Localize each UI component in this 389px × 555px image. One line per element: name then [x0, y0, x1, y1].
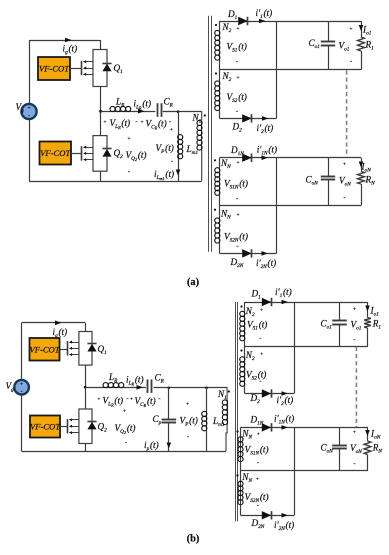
svg-text:-: - — [187, 434, 189, 441]
wire outputN top rail (b) — [294, 427, 368, 429]
secondary winding S3 N_N (b) — [240, 427, 242, 437]
svg-text:+: + — [237, 213, 240, 219]
current arrow i2N' (b) — [282, 513, 289, 518]
current arrow i_g (a) — [65, 38, 72, 43]
transformer primary lead (a) — [201, 111, 203, 120]
secondary winding S4 N_N (a) — [219, 205, 221, 218]
current arrow i1N' (b) — [282, 425, 289, 430]
svg-text:-: - — [257, 460, 259, 467]
svg-text:-: - — [236, 108, 238, 115]
wire outputN top rail (a) — [277, 157, 362, 159]
svg-text:(a): (a) — [187, 277, 200, 288]
wire Q1 source (a) — [100, 87, 102, 112]
svg-text:+: + — [343, 162, 346, 168]
capacitor C_p branch (b) — [168, 387, 171, 390]
svg-text:VF-COT: VF-COT — [39, 64, 70, 74]
dashed continuation line (b) — [355, 347, 357, 427]
svg-text:-: - — [128, 169, 130, 176]
VF-COT controller 2 (a) — [40, 142, 72, 165]
transistor Q1 (a) — [82, 50, 112, 87]
wire bottom rail (b) — [22, 451, 226, 453]
current arrow i1' (b) — [282, 300, 289, 305]
svg-text:+: + — [237, 75, 240, 81]
diode D1 (a) — [220, 21, 277, 23]
wire Q2 source (a) — [100, 171, 102, 181]
current arrow I_oN (b) — [365, 430, 370, 436]
svg-text:-: - — [21, 389, 23, 395]
inductor L_R (b) — [103, 387, 124, 389]
secondary winding S1 N2 (b) — [244, 302, 246, 312]
diode D2 (b) — [245, 393, 295, 395]
node A junction (b) — [84, 386, 87, 389]
svg-text:+: + — [104, 120, 107, 126]
transformer primary winding N1 (a) — [201, 121, 203, 151]
current arrow i_LR (b) — [137, 385, 144, 390]
phase dot S3 (a) — [214, 159, 216, 161]
secondary winding S4 N_N (b) — [240, 471, 242, 482]
source Vg (b) — [14, 380, 29, 395]
VF-COT controller 1 (a) — [38, 57, 70, 80]
svg-text:+: + — [260, 308, 263, 314]
current arrow i2' (b) — [282, 391, 289, 396]
phase dot S1 (b) — [240, 305, 242, 307]
phase dot primary (b) — [228, 390, 230, 392]
phase dot S4 (a) — [214, 209, 216, 211]
secondary winding S3 N_N (a) — [219, 158, 221, 168]
wire output1 top rail (a) — [277, 21, 362, 23]
current arrow i2N' (a) — [262, 251, 269, 256]
capacitor C_oN (b) — [339, 427, 341, 445]
svg-text:-: - — [158, 396, 160, 403]
wire top rail (a) — [29, 40, 101, 42]
resistor R1 (a) — [361, 21, 363, 37]
svg-text:VF-COT: VF-COT — [40, 148, 71, 158]
current arrow i_g (b) — [55, 321, 62, 326]
inductor L_m1 branch wire (a) — [177, 110, 180, 113]
wire Q2 drain (b) — [85, 387, 87, 409]
wire gate Q2 (b) — [60, 426, 68, 428]
current arrow I_o1 (a) — [359, 25, 364, 31]
svg-text:-: - — [353, 337, 355, 344]
current arrow i1' (a) — [259, 19, 266, 24]
diode D2 (a) — [220, 118, 277, 120]
capacitor C_R (b) — [147, 379, 149, 393]
svg-text:+: + — [170, 127, 173, 133]
svg-text:-: - — [126, 396, 128, 403]
svg-text:-: - — [350, 58, 352, 65]
wire output1 bottom rail (b) — [245, 346, 369, 348]
node A junction (a) — [99, 110, 102, 113]
inductor L_m1 branch (b) — [205, 387, 208, 390]
svg-text:+: + — [237, 26, 240, 32]
svg-text:-: - — [236, 243, 238, 250]
transformer core (b) — [235, 302, 237, 521]
svg-text:+: + — [128, 136, 131, 142]
phase dot S1 (a) — [215, 24, 217, 26]
svg-text:-: - — [28, 114, 30, 120]
wire gate Q1 (a) — [70, 68, 82, 70]
wire resonant tank rail (b) — [85, 387, 146, 389]
wire rectifier bus outputN (b) — [294, 427, 296, 515]
inductor L_m1 (b) — [206, 412, 208, 431]
phase dot S2 (a) — [215, 72, 217, 74]
svg-text:+: + — [186, 402, 189, 408]
svg-text:+: + — [353, 430, 356, 436]
resistor R1 (b) — [367, 302, 369, 318]
svg-text:+: + — [256, 476, 259, 482]
VF-COT controller 1 (b) — [30, 338, 60, 361]
phase dot S3 (b) — [236, 430, 238, 432]
wire outputN bottom rail (b) — [241, 470, 369, 472]
transformer primary winding N1 (b) — [227, 400, 229, 425]
capacitor C_oN (a) — [328, 158, 330, 176]
svg-text:-: - — [171, 158, 173, 165]
wire rectifier bus outputN (a) — [276, 158, 278, 254]
wire left rail lower (b) — [21, 395, 23, 451]
wire Q2 drain (a) — [100, 111, 102, 135]
wire rectifier bus output1 (b) — [294, 302, 296, 394]
transistor Q2 (b) — [68, 409, 97, 444]
wire Q1 drain (b) — [85, 323, 87, 332]
transformer core (a) — [208, 16, 210, 252]
VF-COT controller 2 (b) — [30, 416, 60, 438]
current arrow i_p (b) — [167, 443, 172, 449]
svg-text:-: - — [169, 119, 171, 126]
wire resonant tank rail (a) — [101, 111, 156, 113]
svg-text:+: + — [237, 160, 240, 166]
svg-text:-: - — [135, 119, 137, 126]
diode D1N (b) — [241, 427, 295, 429]
svg-text:-: - — [236, 196, 238, 203]
svg-text:-: - — [125, 440, 127, 447]
wire Q1 source (b) — [85, 365, 87, 387]
svg-text:+: + — [353, 307, 356, 313]
svg-text:+: + — [350, 26, 353, 32]
resistor R_N (b) — [367, 427, 369, 441]
dashed continuation line (a) — [346, 70, 348, 157]
secondary winding S2 N2 (b) — [244, 346, 246, 357]
svg-text:+: + — [20, 382, 23, 388]
diode D2N (b) — [241, 515, 295, 517]
svg-text:+: + — [141, 120, 144, 126]
svg-text:-: - — [259, 335, 261, 342]
svg-text:+: + — [97, 397, 100, 403]
capacitor C_o1 (a) — [328, 21, 330, 42]
phase dot primary (a) — [204, 114, 206, 116]
inductor L_m1 (a) — [178, 135, 180, 159]
wire left rail upper (a) — [29, 40, 31, 103]
phase dot S2 (b) — [240, 349, 242, 351]
wire gate Q2 (a) — [71, 153, 82, 155]
wire gate Q1 (b) — [60, 349, 69, 351]
capacitor C_o1 (b) — [339, 302, 341, 320]
transistor Q2 (a) — [82, 136, 112, 172]
svg-text:VF-COT: VF-COT — [30, 422, 61, 432]
wire bottom rail (a) — [29, 181, 202, 183]
wire output1 bottom rail (a) — [220, 69, 362, 71]
wire Q1 drain (a) — [100, 40, 102, 50]
capacitor C_R (a) — [157, 103, 159, 117]
resistor R_N (a) — [361, 158, 363, 172]
transistor Q1 (b) — [68, 332, 97, 366]
current arrow i_LR (a) — [138, 109, 145, 114]
wire output1 top rail (b) — [294, 302, 368, 304]
svg-text:-: - — [343, 194, 345, 201]
secondary winding S1 N2 (a) — [219, 21, 221, 31]
wire left rail lower (a) — [29, 120, 31, 181]
svg-text:VF-COT: VF-COT — [29, 344, 60, 354]
svg-text:+: + — [130, 397, 133, 403]
source Vg (a) — [21, 104, 36, 119]
wire top rail (b) — [22, 322, 86, 324]
svg-text:-: - — [353, 460, 355, 467]
current arrow i2' (a) — [262, 116, 269, 121]
svg-text:(b): (b) — [187, 534, 200, 545]
wire rectifier bus (a) output1 — [276, 21, 278, 118]
current arrow I_oN (a) — [359, 162, 364, 168]
wire left rail upper (b) — [21, 323, 23, 379]
diode D1 (b) — [245, 302, 295, 304]
current arrow I_o1 (b) — [365, 306, 370, 312]
transformer primary lead (b) — [226, 387, 228, 400]
svg-text:+: + — [257, 432, 260, 438]
wire outputN bottom rail (a) — [220, 205, 362, 207]
svg-text:+: + — [123, 409, 126, 415]
svg-text:+: + — [260, 352, 263, 358]
inductor L_R (a) — [110, 111, 131, 113]
phase dot S4 (b) — [236, 474, 238, 476]
secondary winding S2 N2 (a) — [219, 70, 221, 81]
diode D2N (a) — [220, 253, 277, 255]
diode D1N (a) — [220, 157, 277, 159]
svg-text:+: + — [27, 106, 30, 112]
current arrow i_Lm1 (a) — [176, 170, 181, 176]
svg-text:-: - — [236, 59, 238, 66]
current arrow i1N' (a) — [262, 155, 269, 160]
wire Q2 source (b) — [85, 444, 87, 452]
